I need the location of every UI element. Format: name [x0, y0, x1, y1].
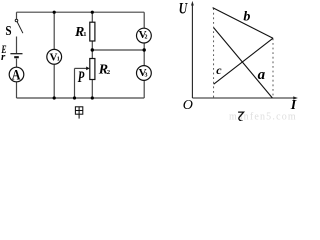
svg-text:U: U [179, 0, 189, 17]
svg-text:b: b [243, 9, 250, 24]
svg-text:1: 1 [83, 31, 86, 38]
svg-text:2: 2 [145, 35, 148, 41]
svg-text:P: P [77, 69, 84, 86]
svg-text:O: O [183, 98, 193, 113]
svg-text:1: 1 [57, 56, 60, 62]
svg-text:2: 2 [107, 69, 110, 76]
svg-text:3: 3 [145, 73, 148, 79]
svg-text:a: a [258, 67, 266, 83]
svg-text:A: A [12, 67, 21, 83]
svg-text:S: S [5, 24, 11, 39]
svg-text:c: c [216, 63, 222, 77]
svg-text:r: r [1, 51, 6, 63]
